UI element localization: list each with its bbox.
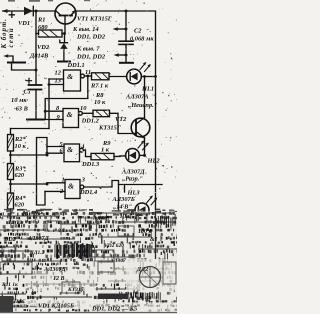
gate DD1.1 (64, 70, 81, 91)
zener VD2 (64, 34, 66, 43)
svg-text:АЛ307А: АЛ307А (125, 94, 149, 101)
svg-text:DD1, DD2: DD1, DD2 (76, 54, 106, 61)
svg-text:КТ315: КТ315 (67, 287, 84, 293)
node A junction (35, 10, 38, 13)
top edge smudges (8, 0, 90, 2)
svg-text:12: 12 (55, 70, 62, 77)
svg-text:10 к: 10 к (15, 143, 27, 150)
svg-text:С2: С2 (134, 28, 142, 35)
svg-text:&: & (67, 72, 73, 81)
wire R8 to VT2 base (110, 113, 137, 133)
svg-text:0,068 мк: 0,068 мк (130, 36, 154, 43)
gate DD1.3 (64, 144, 80, 162)
wire input rail (48, 79, 50, 129)
transistor VT1 (55, 3, 76, 24)
page speckle (0, 0, 177, 211)
node pin8 junction (44, 110, 47, 113)
svg-text:100 к: 100 к (138, 229, 153, 235)
svg-text:DD1.3: DD1.3 (81, 161, 100, 168)
LED HL2 (126, 149, 140, 163)
resistor R8 (93, 110, 110, 117)
svg-text:Д814В: Д814В (29, 53, 49, 60)
svg-text:&: & (67, 110, 73, 119)
scan noise region (0, 209, 179, 314)
svg-text:VD1: VD1 (18, 20, 30, 27)
svg-text:Р.: Р. (75, 261, 79, 267)
node battery plus arrow (9, 12, 14, 17)
svg-text:HL1: HL1 (141, 86, 154, 93)
svg-text:„Разр.": „Разр." (122, 176, 143, 183)
svg-text:10 к: 10 к (94, 99, 106, 106)
page speckle (0, 0, 177, 211)
svg-text:— VD1 КД105Б: — VD1 КД105Б (29, 303, 74, 310)
svg-text:&1: &1 (150, 237, 158, 243)
wire R2 top tap (11, 128, 50, 130)
svg-text:10: 10 (80, 105, 87, 112)
resistor R2 (8, 135, 14, 152)
wire R3R4 tap (11, 183, 48, 185)
wire VT2 collector (144, 77, 146, 118)
svg-text:ЗД ТЗ: ЗД ТЗ (7, 220, 22, 226)
dark specks (3, 21, 173, 209)
svg-text:R1: R1 (37, 17, 45, 24)
wire DD1.3 input rail (46, 147, 48, 156)
junction base node (63, 32, 66, 35)
svg-text:R8: R8 (95, 92, 104, 99)
svg-text:13: 13 (55, 78, 62, 85)
svg-text:АЛ307Б: АЛ307Б (112, 196, 135, 203)
transistor VT2 (131, 118, 150, 137)
svg-text:VT2: VT2 (115, 116, 127, 123)
svg-text:ДД1.2: ДД1.2 (29, 250, 45, 256)
svg-text:10 мк·: 10 мк· (11, 97, 29, 104)
wire to pin14 arrow (118, 28, 126, 30)
svg-text:&: & (68, 182, 74, 191)
svg-text:4Л307Д: 4Л307Д (27, 235, 50, 242)
svg-text:1 к: 1 к (101, 147, 110, 154)
ground bar left (8, 62, 25, 64)
svg-text:С1: С1 (24, 89, 31, 96)
diode VD1 (24, 7, 33, 15)
gate DD1.2 (63, 109, 79, 128)
svg-text:DD1.1: DD1.1 (67, 62, 85, 69)
junction C2 top rail (125, 10, 128, 13)
svg-text:12 В: 12 В (53, 276, 65, 282)
wire divider column (10, 129, 12, 214)
svg-text:VD2 620: VD2 620 (104, 243, 124, 249)
wire top rail (3, 11, 156, 210)
svg-text:DD1, DD2: DD1, DD2 (76, 34, 106, 41)
svg-text:R2*: R2* (14, 136, 26, 143)
svg-text:1: 1 (62, 177, 65, 184)
svg-text:К выв. 7: К выв. 7 (76, 46, 100, 53)
resistor R7 (92, 73, 110, 80)
wire minus arrow (9, 56, 13, 63)
svg-text:&: & (67, 145, 73, 154)
resistor R1 (36, 33, 39, 35)
resistor R3 (8, 164, 14, 180)
svg-text:HL2: HL2 (147, 158, 161, 165)
svg-text:НБ0: НБ0 (119, 214, 131, 220)
svg-text:VD2: VD2 (37, 44, 50, 51)
wire VT2 emitter down (144, 138, 146, 155)
ground bar under VD2 (58, 61, 70, 63)
svg-text:К выв. 14: К выв. 14 (72, 26, 99, 33)
svg-text:10: 10 (160, 221, 166, 227)
svg-text:4: 4 (80, 143, 84, 150)
junction pin7 node (125, 54, 128, 57)
junction C1 top (35, 69, 38, 72)
capacitor C1 (27, 78, 32, 83)
wire to pin7 arrow (119, 54, 126, 56)
svg-text:VT1 КТ315Г: VT1 КТ315Г (77, 16, 112, 23)
svg-text:КТ315Г: КТ315Г (98, 125, 121, 132)
svg-text:680: 680 (38, 24, 48, 31)
svg-text:АЛ307Д: АЛ307Д (43, 266, 67, 273)
svg-text:АЛ307Д: АЛ307Д (121, 169, 145, 176)
svg-text:DD1, DD2 — К5: DD1, DD2 — К5 (91, 306, 138, 313)
ground bar under C1 (27, 119, 44, 121)
ground bar under C2 (120, 62, 133, 64)
wire R2R3 tap (11, 154, 48, 156)
wire DD1.1 output to DD1.2 inputs 8,9 (45, 76, 88, 120)
wire DD1.4 output routing to HL3 (119, 185, 163, 212)
LED HL3 (135, 203, 149, 217)
svg-text:R11 1к: R11 1к (1, 282, 18, 288)
svg-text:DD2: DD2 (3, 237, 16, 243)
svg-text:Р.: Р. (34, 266, 38, 272)
svg-text:„Неиспр.": „Неиспр." (128, 102, 158, 109)
junction supply node (125, 28, 128, 31)
svg-text:АЛ307: АЛ307 (92, 216, 111, 222)
svg-text:DD1.4: DD1.4 (79, 189, 97, 196)
wire bypass (37, 138, 48, 206)
node DD1.1 output junction (86, 75, 89, 78)
svg-text:R7 1 к: R7 1 к (90, 83, 109, 90)
wire C2 branch (125, 11, 127, 41)
wire node A down to C1 (35, 11, 37, 85)
svg-text:DD1.2: DD1.2 (81, 118, 100, 125)
svg-text:620: 620 (15, 172, 25, 179)
LED HL1 (127, 69, 142, 84)
resistor R9 (91, 153, 114, 159)
svg-text:·63 В: ·63 В (14, 105, 29, 112)
gate DD1.4 (65, 180, 80, 199)
capacitor C2 (119, 40, 133, 42)
svg-text:11: 11 (85, 69, 91, 76)
resistor R4 (8, 193, 14, 209)
wire minus lead (12, 64, 37, 71)
